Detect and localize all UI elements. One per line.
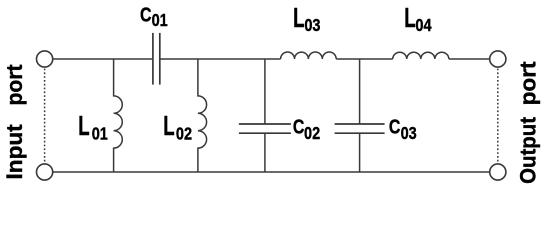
wire: C03 upper lead <box>359 59 361 124</box>
svg-text:C: C <box>140 2 152 26</box>
wire: C03 lower lead <box>359 133 361 172</box>
wire: top rail between L03 and L04 with C03 tap <box>336 58 393 60</box>
output port dotted connector <box>497 69 499 163</box>
inductor L02 <box>198 59 207 172</box>
label L02 <box>163 110 192 143</box>
svg-text:L: L <box>293 2 304 34</box>
svg-text:03: 03 <box>401 123 417 143</box>
wire: top rail from input terminal to C01 <box>53 58 152 60</box>
svg-text:C: C <box>389 114 401 138</box>
svg-text:L: L <box>404 2 415 34</box>
label C02 <box>293 114 320 143</box>
svg-text:04: 04 <box>415 16 431 36</box>
input port dotted connector <box>44 69 46 163</box>
label C03 <box>389 114 417 143</box>
capacitor C01 right plate <box>159 33 161 85</box>
svg-text:Outputport: Outputport <box>515 61 540 184</box>
wire: top rail from C01 past L02 and C02 taps to L03 <box>159 58 281 60</box>
wire: top rail from L04 to output terminal <box>449 58 490 60</box>
capacitor C02 bottom plate <box>239 132 291 134</box>
label L03 <box>293 2 320 35</box>
capacitor C01 left plate <box>152 33 154 85</box>
svg-text:02: 02 <box>176 124 192 144</box>
capacitor C03 top plate <box>335 123 385 125</box>
inductor L04 <box>393 52 449 59</box>
wire: C02 lower lead <box>264 133 266 172</box>
svg-text:Inputport: Inputport <box>2 64 27 179</box>
svg-text:L: L <box>78 110 89 142</box>
inductor L01 <box>114 59 123 172</box>
inductor L03 <box>281 52 337 59</box>
label C01 <box>140 2 168 30</box>
input terminal top circle <box>37 51 53 67</box>
svg-text:01: 01 <box>92 124 108 144</box>
input terminal bottom circle <box>37 164 53 180</box>
capacitor C02 top plate <box>239 123 291 125</box>
wire: bottom rail <box>53 171 490 173</box>
label L04 <box>404 2 431 35</box>
label L01 <box>78 110 108 143</box>
svg-text:C: C <box>293 114 305 138</box>
capacitor C03 bottom plate <box>335 132 385 134</box>
output terminal top circle <box>490 51 506 67</box>
wire: C02 upper lead <box>264 59 266 124</box>
svg-text:L: L <box>163 110 174 142</box>
output terminal bottom circle <box>490 164 506 180</box>
svg-text:01: 01 <box>152 11 168 31</box>
svg-text:02: 02 <box>304 123 320 143</box>
svg-text:03: 03 <box>304 16 320 36</box>
